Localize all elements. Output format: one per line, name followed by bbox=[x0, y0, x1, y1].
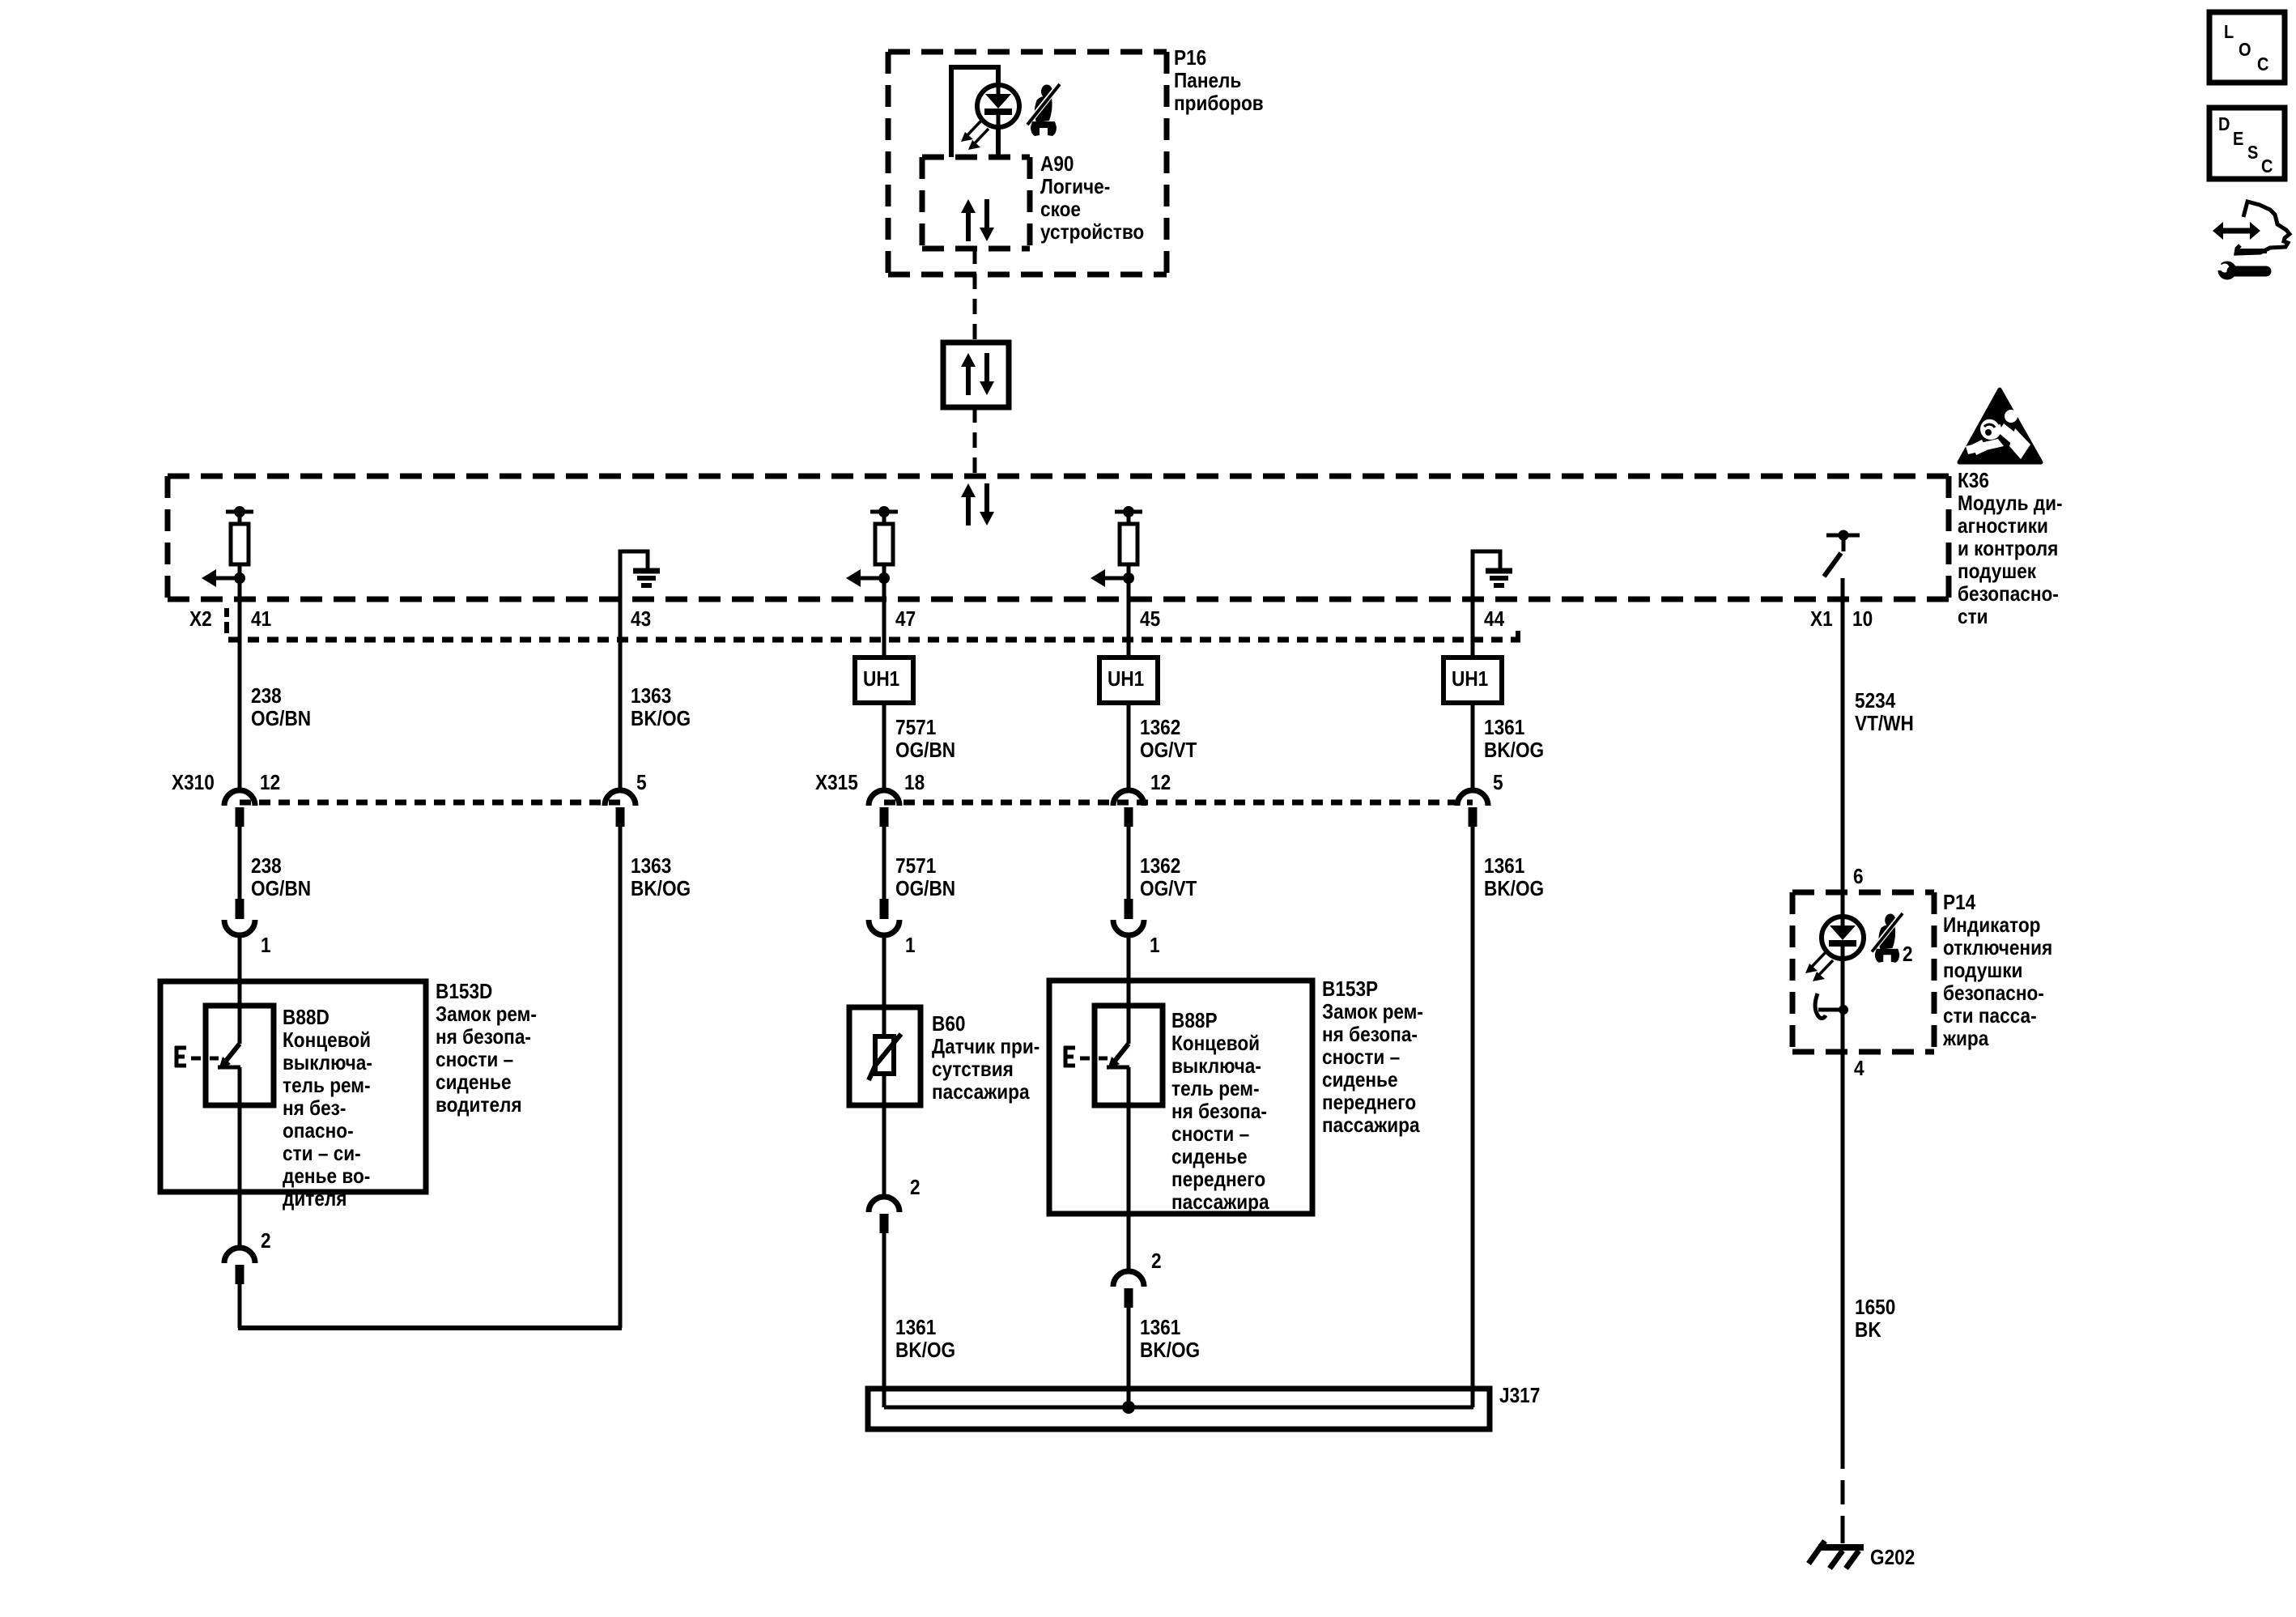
LED seat belt indicator lamp bbox=[961, 85, 1019, 150]
svg-text:2: 2 bbox=[1903, 943, 1913, 967]
wire 1361 BK/OG below X315 to J317 bbox=[1471, 826, 1475, 1407]
K36 airbag module dashed box bbox=[168, 474, 1949, 479]
UH1 splice pack pin44 bbox=[1444, 657, 1502, 703]
svg-text:12: 12 bbox=[260, 772, 280, 795]
P14 shorting bar symbol bbox=[1815, 994, 1848, 1019]
seat belt icon bbox=[1027, 84, 1060, 136]
B88D switch bbox=[218, 1008, 240, 1105]
UH1 splice pack pin45 bbox=[1099, 657, 1158, 703]
wire 1361 BK/OG pin44 bbox=[1471, 602, 1475, 657]
svg-text:2: 2 bbox=[261, 1230, 271, 1253]
A90 logic device dashed box bbox=[922, 155, 1030, 160]
B153P seat belt buckle box bbox=[1049, 981, 1312, 1214]
dashed serial data wire A90 to symbol bbox=[973, 249, 977, 343]
wire B88P to pin 2 bbox=[1127, 1105, 1131, 1270]
svg-text:4: 4 bbox=[1854, 1057, 1864, 1081]
B88P E terminal bbox=[1064, 1046, 1075, 1067]
X310 pin 5 connector bbox=[605, 790, 636, 827]
DESC box bbox=[2209, 108, 2285, 179]
X315 connector dotted line bbox=[884, 800, 1473, 806]
X315 pin 18 connector bbox=[869, 790, 899, 827]
svg-text:1: 1 bbox=[261, 934, 271, 958]
wire B88P pin2 to J317 bbox=[1127, 1301, 1131, 1407]
svg-text:2: 2 bbox=[1151, 1250, 1162, 1274]
svg-text:G202: G202 bbox=[1870, 1547, 1915, 1570]
P14 seat belt icon bbox=[1872, 913, 1903, 963]
bottom loop wire to X310 pin 5 bbox=[238, 1326, 622, 1330]
svg-text:44: 44 bbox=[1484, 608, 1505, 632]
serial data symbol arrows bbox=[961, 353, 994, 395]
wire 238 OG/BN below X310 bbox=[238, 826, 242, 899]
X310 connector dotted line bbox=[240, 800, 620, 806]
wire B88D pin2 down bbox=[238, 1283, 242, 1328]
wire 5234 VT/WH X1-10 bbox=[1841, 578, 1845, 1469]
B88D pin 1 connector bbox=[224, 899, 255, 935]
svg-text:UH1: UH1 bbox=[1452, 668, 1488, 691]
svg-text:C: C bbox=[2257, 53, 2268, 75]
B88D pin 2 connector bbox=[224, 1248, 255, 1284]
svg-text:12: 12 bbox=[1150, 772, 1171, 795]
svg-text:43: 43 bbox=[631, 608, 651, 632]
B60 pin 1 connector bbox=[869, 899, 899, 935]
svg-text:L: L bbox=[2224, 21, 2234, 43]
wire B60 pin2 to J317 bbox=[882, 1230, 887, 1407]
svg-text:X310: X310 bbox=[172, 772, 215, 795]
svg-text:D: D bbox=[2218, 113, 2230, 135]
svg-text:5: 5 bbox=[636, 772, 647, 795]
svg-text:S: S bbox=[2247, 142, 2258, 164]
P14 LED bbox=[1805, 917, 1864, 981]
svg-text:6: 6 bbox=[1853, 866, 1864, 889]
svg-text:47: 47 bbox=[895, 608, 916, 632]
B60 passenger presence sensor box bbox=[849, 1007, 921, 1105]
svg-text:2: 2 bbox=[910, 1177, 921, 1200]
K36 serial data arrows bbox=[961, 483, 994, 526]
X310 pin 12 connector bbox=[224, 790, 255, 827]
B88P pin 2 connector bbox=[1113, 1271, 1144, 1308]
B60 sensor element bbox=[869, 1010, 901, 1103]
P14 passenger airbag indicator dashed box bbox=[1792, 890, 1934, 896]
LOC box bbox=[2209, 12, 2285, 83]
wire 7571 OG/BN pin47 bbox=[882, 564, 887, 657]
B88P switch box bbox=[1095, 1006, 1163, 1105]
svg-text:X1: X1 bbox=[1810, 608, 1833, 632]
serial data symbol box bbox=[943, 343, 1009, 407]
dashed serial data wire to K36 bbox=[973, 407, 977, 483]
K36 resistor driver pin 41 bbox=[202, 506, 253, 587]
A90 serial data arrows bbox=[961, 199, 994, 241]
wire 1362 OG/VT pin45 bbox=[1127, 564, 1131, 657]
svg-text:UH1: UH1 bbox=[1108, 668, 1144, 691]
wire 1362 OG/VT below X315 bbox=[1127, 826, 1131, 899]
B88P pin 1 connector bbox=[1113, 899, 1144, 935]
svg-text:J317: J317 bbox=[1499, 1385, 1540, 1408]
service icon double arrow bbox=[2213, 222, 2260, 240]
svg-text:B88PКонцевойвыключа-тель рем-н: B88PКонцевойвыключа-тель рем-ня безопа-с… bbox=[1171, 1010, 1269, 1215]
svg-text:1: 1 bbox=[905, 934, 916, 958]
svg-text:45: 45 bbox=[1140, 608, 1160, 632]
svg-text:18: 18 bbox=[904, 772, 925, 795]
K36 switch output X1 pin 10 bbox=[1824, 530, 1860, 577]
svg-text:O: O bbox=[2239, 39, 2251, 61]
svg-text:X2: X2 bbox=[189, 608, 212, 632]
K36 resistor pin 45 bbox=[1091, 506, 1142, 587]
svg-text:41: 41 bbox=[251, 608, 271, 632]
B88P switch bbox=[1107, 1008, 1129, 1105]
wire 1363 BK/OG pin43 to X310 bbox=[619, 602, 623, 789]
wire 238 OG/BN pin41 to X310 bbox=[238, 564, 242, 789]
svg-text:C: C bbox=[2261, 155, 2273, 177]
service icon wrench bbox=[2213, 257, 2266, 280]
service icon panel outline bbox=[2236, 202, 2290, 253]
K36 internal ground pin 44 bbox=[1473, 551, 1512, 602]
svg-text:E: E bbox=[2233, 128, 2243, 150]
J317 splice box bbox=[868, 1389, 1490, 1429]
svg-text:1: 1 bbox=[1150, 934, 1160, 958]
dashed wire to G202 bbox=[1841, 1480, 1845, 1504]
wire B88D to pin 2 bbox=[238, 1105, 242, 1245]
wire 1363 BK/OG below X310 bbox=[619, 826, 623, 1328]
svg-text:5: 5 bbox=[1493, 772, 1503, 795]
B153D seat belt buckle box bbox=[160, 981, 426, 1192]
G202 chassis ground bbox=[1809, 1541, 1864, 1568]
wire 7571 OG/BN below X315 bbox=[882, 826, 887, 899]
svg-text:К36Модуль ди-агностикии контро: К36Модуль ди-агностикии контроляподушекб… bbox=[1958, 470, 2063, 629]
X2 connector dotted line bbox=[228, 637, 1520, 643]
wire loop to indicator LED bbox=[951, 67, 998, 157]
SIR caution triangle bbox=[1959, 389, 2041, 462]
J317 junction dot bbox=[1122, 1401, 1135, 1414]
svg-text:UH1: UH1 bbox=[863, 668, 899, 691]
K36 internal ground pin 43 bbox=[620, 551, 660, 602]
X315 pin 5 connector bbox=[1457, 790, 1488, 827]
K36 resistor pin 47 bbox=[846, 506, 898, 587]
wire B60 to pin 2 bbox=[882, 1103, 887, 1195]
J317 bus wire bbox=[884, 1406, 1473, 1410]
P16 instrument panel dashed box bbox=[888, 49, 1167, 55]
svg-text:10: 10 bbox=[1852, 608, 1873, 632]
service icon bottom bar bbox=[2238, 249, 2267, 253]
X2 separator ticks bbox=[224, 608, 229, 617]
B60 pin 2 connector bbox=[869, 1197, 899, 1233]
UH1 splice pack pin47 bbox=[855, 657, 913, 703]
svg-text:X315: X315 bbox=[815, 772, 858, 795]
B88D E terminal bbox=[175, 1046, 186, 1067]
X315 pin 12 connector bbox=[1113, 790, 1144, 827]
B88D switch box bbox=[206, 1006, 274, 1105]
